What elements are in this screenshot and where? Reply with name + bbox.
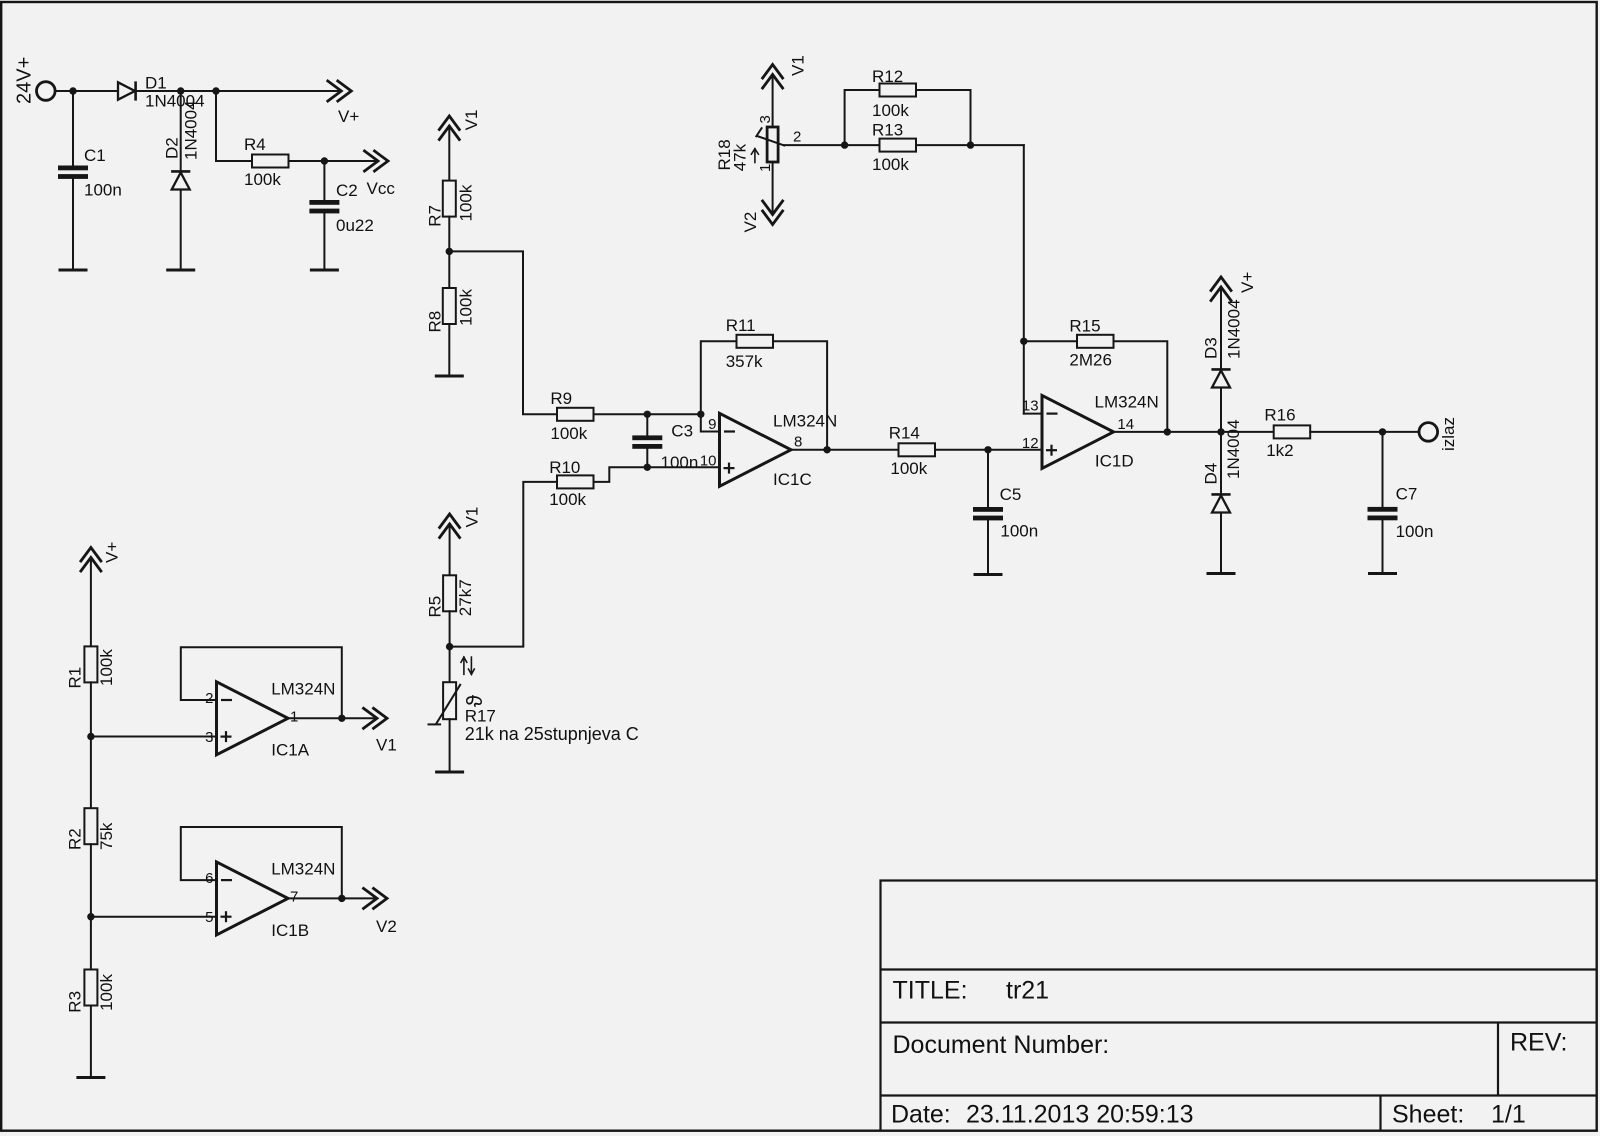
svg-text:D1: D1	[145, 73, 167, 92]
capacitor C1	[58, 146, 122, 200]
wire R8 to ground	[448, 324, 450, 376]
capacitor C2	[309, 181, 373, 235]
wire D4 to ground	[1220, 513, 1222, 574]
diode D3	[1202, 299, 1244, 387]
pin 5 label	[205, 909, 213, 926]
rev text	[1510, 1029, 1567, 1057]
svg-text:V1: V1	[463, 507, 482, 528]
junction C3 bottom	[644, 464, 651, 471]
svg-text:1N4004: 1N4004	[1224, 419, 1243, 479]
pin 8 label	[794, 434, 802, 451]
pin 7 label	[290, 889, 298, 906]
wire net R18 wiper / R12 R13	[784, 90, 1024, 414]
resistor R8	[425, 288, 475, 333]
svg-text:D3: D3	[1202, 337, 1221, 359]
pin 9 label	[708, 416, 716, 433]
svg-text:13: 13	[1022, 398, 1039, 415]
ground C5	[974, 573, 1003, 576]
svg-text:C7: C7	[1396, 484, 1418, 503]
svg-text:100k: 100k	[549, 490, 586, 509]
pin 14 label	[1117, 416, 1134, 433]
svg-text:IC1D: IC1D	[1095, 451, 1134, 470]
svg-text:V+: V+	[103, 542, 122, 563]
svg-text:V+: V+	[1238, 272, 1257, 293]
svg-text:6: 6	[205, 870, 213, 887]
wire V1 to R5	[449, 524, 451, 575]
svg-text:tr21: tr21	[1006, 977, 1049, 1005]
svg-text:Date:: Date:	[891, 1101, 951, 1129]
op-amp IC1C	[720, 412, 838, 490]
wire R15 tap to pin13	[1024, 341, 1077, 413]
wire IC1A output to V1	[288, 717, 377, 719]
pin 3 label	[205, 729, 213, 746]
junction feedback R15	[1164, 428, 1171, 435]
supply arrow V1 above R18	[763, 55, 808, 88]
svg-text:R9: R9	[550, 389, 572, 408]
svg-text:100k: 100k	[97, 649, 116, 686]
svg-text:47k: 47k	[730, 143, 749, 171]
svg-text:5: 5	[205, 909, 213, 926]
supply arrow V1 above R7	[439, 110, 481, 140]
date text	[891, 1101, 1194, 1129]
capacitor C7	[1368, 484, 1434, 541]
wire net izlaz	[1310, 432, 1419, 507]
ground D4	[1207, 572, 1236, 575]
svg-text:LM324N: LM324N	[271, 680, 335, 699]
capacitor C5	[973, 485, 1038, 541]
capacitor C3	[632, 422, 698, 473]
svg-text:100k: 100k	[890, 459, 927, 478]
supply arrow V1 above R5	[440, 507, 482, 538]
svg-text:75k: 75k	[97, 822, 116, 850]
wire net IC1C pin9	[594, 341, 737, 435]
svg-text:izlaz: izlaz	[1439, 417, 1458, 451]
pin 10 label	[700, 453, 717, 470]
svg-text:1: 1	[290, 709, 298, 726]
resistor R15	[1069, 317, 1113, 370]
svg-text:100n: 100n	[1000, 522, 1038, 541]
svg-text:LM324N: LM324N	[271, 860, 335, 879]
svg-text:23.11.2013 20:59:13: 23.11.2013 20:59:13	[966, 1101, 1194, 1129]
svg-text:V1: V1	[789, 55, 808, 76]
wire C1 to ground	[72, 179, 74, 270]
svg-text:R14: R14	[889, 424, 920, 443]
svg-text:R4: R4	[244, 135, 266, 154]
svg-text:100n: 100n	[1396, 522, 1434, 541]
svg-text:0u22: 0u22	[336, 216, 374, 235]
svg-text:R7: R7	[425, 205, 444, 227]
svg-text:100k: 100k	[97, 974, 116, 1011]
svg-text:V1: V1	[462, 110, 481, 131]
resistor R2	[66, 808, 117, 850]
op-amp IC1D	[1042, 393, 1159, 471]
svg-text:R8: R8	[425, 311, 444, 333]
ground C2	[310, 269, 339, 272]
resistor R3	[66, 970, 117, 1013]
svg-text:R11: R11	[726, 316, 756, 335]
svg-text:V+: V+	[338, 107, 359, 126]
svg-text:C5: C5	[1000, 485, 1022, 504]
svg-text:V2: V2	[376, 917, 397, 936]
svg-text:100k: 100k	[550, 424, 587, 443]
wire net R14/C5/pin12	[935, 450, 1042, 507]
svg-text:R10: R10	[549, 458, 580, 477]
junction D3/D4	[1217, 428, 1224, 435]
wire net Vcc	[289, 161, 379, 200]
svg-text:ϑ: ϑ	[462, 695, 487, 707]
wire IC1A feedback	[181, 647, 342, 718]
svg-text:21k na 25stupnjeva C: 21k na 25stupnjeva C	[465, 724, 639, 744]
thermistor temperature arrows	[461, 657, 474, 674]
sheet text	[1392, 1101, 1526, 1129]
terminal 24V+	[14, 57, 56, 104]
op-amp IC1B	[217, 860, 336, 940]
wire V1 to R7	[448, 126, 450, 181]
svg-text:10: 10	[700, 453, 717, 470]
junction R12/R13 left	[841, 141, 848, 148]
resistor R1	[66, 646, 117, 688]
svg-text:R13: R13	[872, 121, 903, 140]
junction feedback R11	[697, 411, 704, 418]
wire C5 to ground	[987, 520, 989, 574]
svg-text:357k: 357k	[726, 352, 763, 371]
wire net IC1D output	[1114, 388, 1274, 494]
svg-text:R5: R5	[426, 596, 445, 618]
resistor R4	[244, 135, 289, 189]
supply arrow V2 below R18	[741, 201, 783, 233]
pin 2 label	[205, 690, 213, 707]
svg-text:1N4004: 1N4004	[1225, 299, 1244, 359]
svg-text:14: 14	[1117, 416, 1134, 433]
wire net R1/R2 to IC1A pin3	[91, 682, 217, 808]
junction IC1B out	[338, 895, 345, 902]
terminal izlaz	[1419, 417, 1458, 451]
svg-text:C1: C1	[84, 146, 106, 165]
wire R11 to IC1C output	[773, 341, 827, 450]
resistor R7	[425, 181, 475, 227]
svg-text:V1: V1	[376, 736, 397, 755]
svg-text:V2: V2	[741, 212, 760, 233]
junction C7	[1379, 428, 1386, 435]
ground R3	[76, 1076, 105, 1079]
thermistor R17	[429, 682, 639, 744]
ground R8	[435, 375, 464, 378]
wire net 24V+ input	[55, 91, 118, 166]
resistor R11	[726, 316, 773, 371]
wire IC1C output to R14	[791, 449, 899, 451]
svg-text:9: 9	[708, 416, 716, 433]
wire net R2/R3 to IC1B pin5	[91, 844, 217, 969]
pin 12 label	[1022, 435, 1039, 452]
svg-text:1: 1	[757, 164, 774, 172]
svg-text:100k: 100k	[457, 184, 476, 221]
junction IC1C out/feedback	[823, 446, 830, 453]
svg-text:2: 2	[205, 690, 213, 707]
junction C3 top	[644, 411, 651, 418]
svg-text:TITLE:: TITLE:	[893, 977, 968, 1005]
svg-text:100k: 100k	[244, 170, 281, 189]
junction Vcc/C2	[321, 157, 328, 164]
resistor R16	[1264, 406, 1310, 460]
svg-text:R17: R17	[465, 707, 496, 726]
svg-text:IC1C: IC1C	[773, 470, 812, 489]
junction V+/D2	[177, 87, 184, 94]
junction R5/R17	[446, 643, 453, 650]
svg-text:R2: R2	[66, 828, 85, 850]
svg-text:1k2: 1k2	[1266, 441, 1293, 460]
pin 1 label	[290, 709, 298, 726]
svg-text:1N4004: 1N4004	[182, 100, 201, 160]
supply arrow V1 output	[364, 708, 397, 754]
title text	[893, 977, 1050, 1005]
pin 13 label	[1022, 398, 1039, 415]
svg-text:R12: R12	[872, 67, 903, 86]
svg-text:8: 8	[794, 434, 802, 451]
svg-text:2M26: 2M26	[1069, 351, 1112, 370]
svg-text:Sheet:: Sheet:	[1392, 1101, 1464, 1129]
svg-text:100k: 100k	[457, 289, 476, 326]
svg-text:1/1: 1/1	[1491, 1101, 1526, 1129]
document number text	[893, 1031, 1110, 1059]
wire V+ to R1	[90, 558, 92, 647]
svg-text:C3: C3	[671, 422, 693, 441]
svg-text:24V+: 24V+	[14, 57, 36, 104]
diode D1	[118, 73, 205, 110]
resistor R9	[550, 389, 593, 443]
resistor R12	[872, 67, 916, 120]
junction IC1A out	[338, 715, 345, 722]
wire R15 to IC1D output	[1114, 341, 1168, 432]
svg-text:3: 3	[205, 729, 213, 746]
supply arrow V+ above R1	[81, 542, 122, 571]
svg-text:100k: 100k	[872, 101, 909, 120]
resistor R14	[889, 424, 935, 478]
junction R2/R3	[87, 913, 94, 920]
supply arrow V2 output	[364, 888, 397, 936]
resistor R10	[549, 458, 593, 509]
svg-text:REV:: REV:	[1510, 1029, 1567, 1057]
pin 6 label	[205, 870, 213, 887]
wire IC1B feedback	[181, 827, 342, 898]
svg-text:27k7: 27k7	[456, 579, 475, 616]
svg-text:100k: 100k	[872, 155, 909, 174]
ground C7	[1368, 572, 1397, 575]
svg-text:7: 7	[290, 889, 298, 906]
ground C1	[59, 269, 88, 272]
resistor R13	[872, 121, 916, 175]
junction R15 tap	[1020, 338, 1027, 345]
svg-text:R1: R1	[66, 667, 85, 689]
wire net R7/R8 to R9	[449, 217, 557, 415]
svg-text:R16: R16	[1264, 406, 1295, 425]
wire C2 to ground	[323, 213, 325, 270]
junction R7/R8	[446, 248, 453, 255]
svg-text:Document Number:: Document Number:	[893, 1031, 1110, 1059]
svg-text:LM324N: LM324N	[1095, 393, 1159, 412]
svg-text:IC1A: IC1A	[271, 741, 309, 760]
diode D4	[1202, 419, 1244, 512]
svg-text:D2: D2	[163, 137, 182, 159]
resistor R5	[426, 575, 475, 617]
junction 24V+/C1	[69, 87, 76, 94]
wire R3 to ground	[90, 1006, 92, 1078]
junction R14/C5	[984, 446, 991, 453]
wire net IC1C pin10	[594, 449, 720, 482]
svg-text:3: 3	[757, 115, 774, 123]
supply arrow V+ above D3	[1211, 272, 1257, 301]
junction R1/R2	[87, 733, 94, 740]
supply arrow V+	[328, 81, 360, 126]
diode D2	[163, 100, 201, 189]
junction R12/R13 right	[967, 141, 974, 148]
wire D2 to ground	[180, 190, 182, 271]
svg-text:C2: C2	[336, 181, 358, 200]
svg-text:100n: 100n	[661, 453, 699, 472]
svg-text:IC1B: IC1B	[271, 921, 309, 940]
ground R17	[435, 771, 464, 774]
junction V+/R4	[212, 87, 219, 94]
supply arrow Vcc	[365, 151, 396, 198]
wire R18 pin1 to V2	[772, 162, 774, 215]
svg-text:2: 2	[793, 129, 801, 146]
wire R17 to ground	[449, 719, 451, 772]
wire V1 to R18	[772, 75, 774, 128]
ground D2	[166, 269, 195, 272]
op-amp IC1A	[217, 680, 336, 760]
svg-text:D4: D4	[1202, 463, 1221, 485]
svg-text:LM324N: LM324N	[773, 412, 837, 431]
svg-text:R15: R15	[1069, 317, 1100, 336]
potentiometer R18	[715, 115, 801, 172]
svg-text:100n: 100n	[84, 181, 122, 200]
wire V+ to D3	[1220, 287, 1222, 369]
wire C7 to ground	[1382, 520, 1384, 573]
wire R10 to R5/R17 node	[450, 482, 557, 647]
wire R5 to R17	[449, 611, 451, 682]
wire IC1B output to V2	[288, 897, 377, 899]
wire net V+ rail	[136, 91, 342, 171]
svg-text:Vcc: Vcc	[367, 179, 396, 198]
title block frame	[881, 881, 1597, 1131]
svg-text:R3: R3	[66, 991, 85, 1013]
